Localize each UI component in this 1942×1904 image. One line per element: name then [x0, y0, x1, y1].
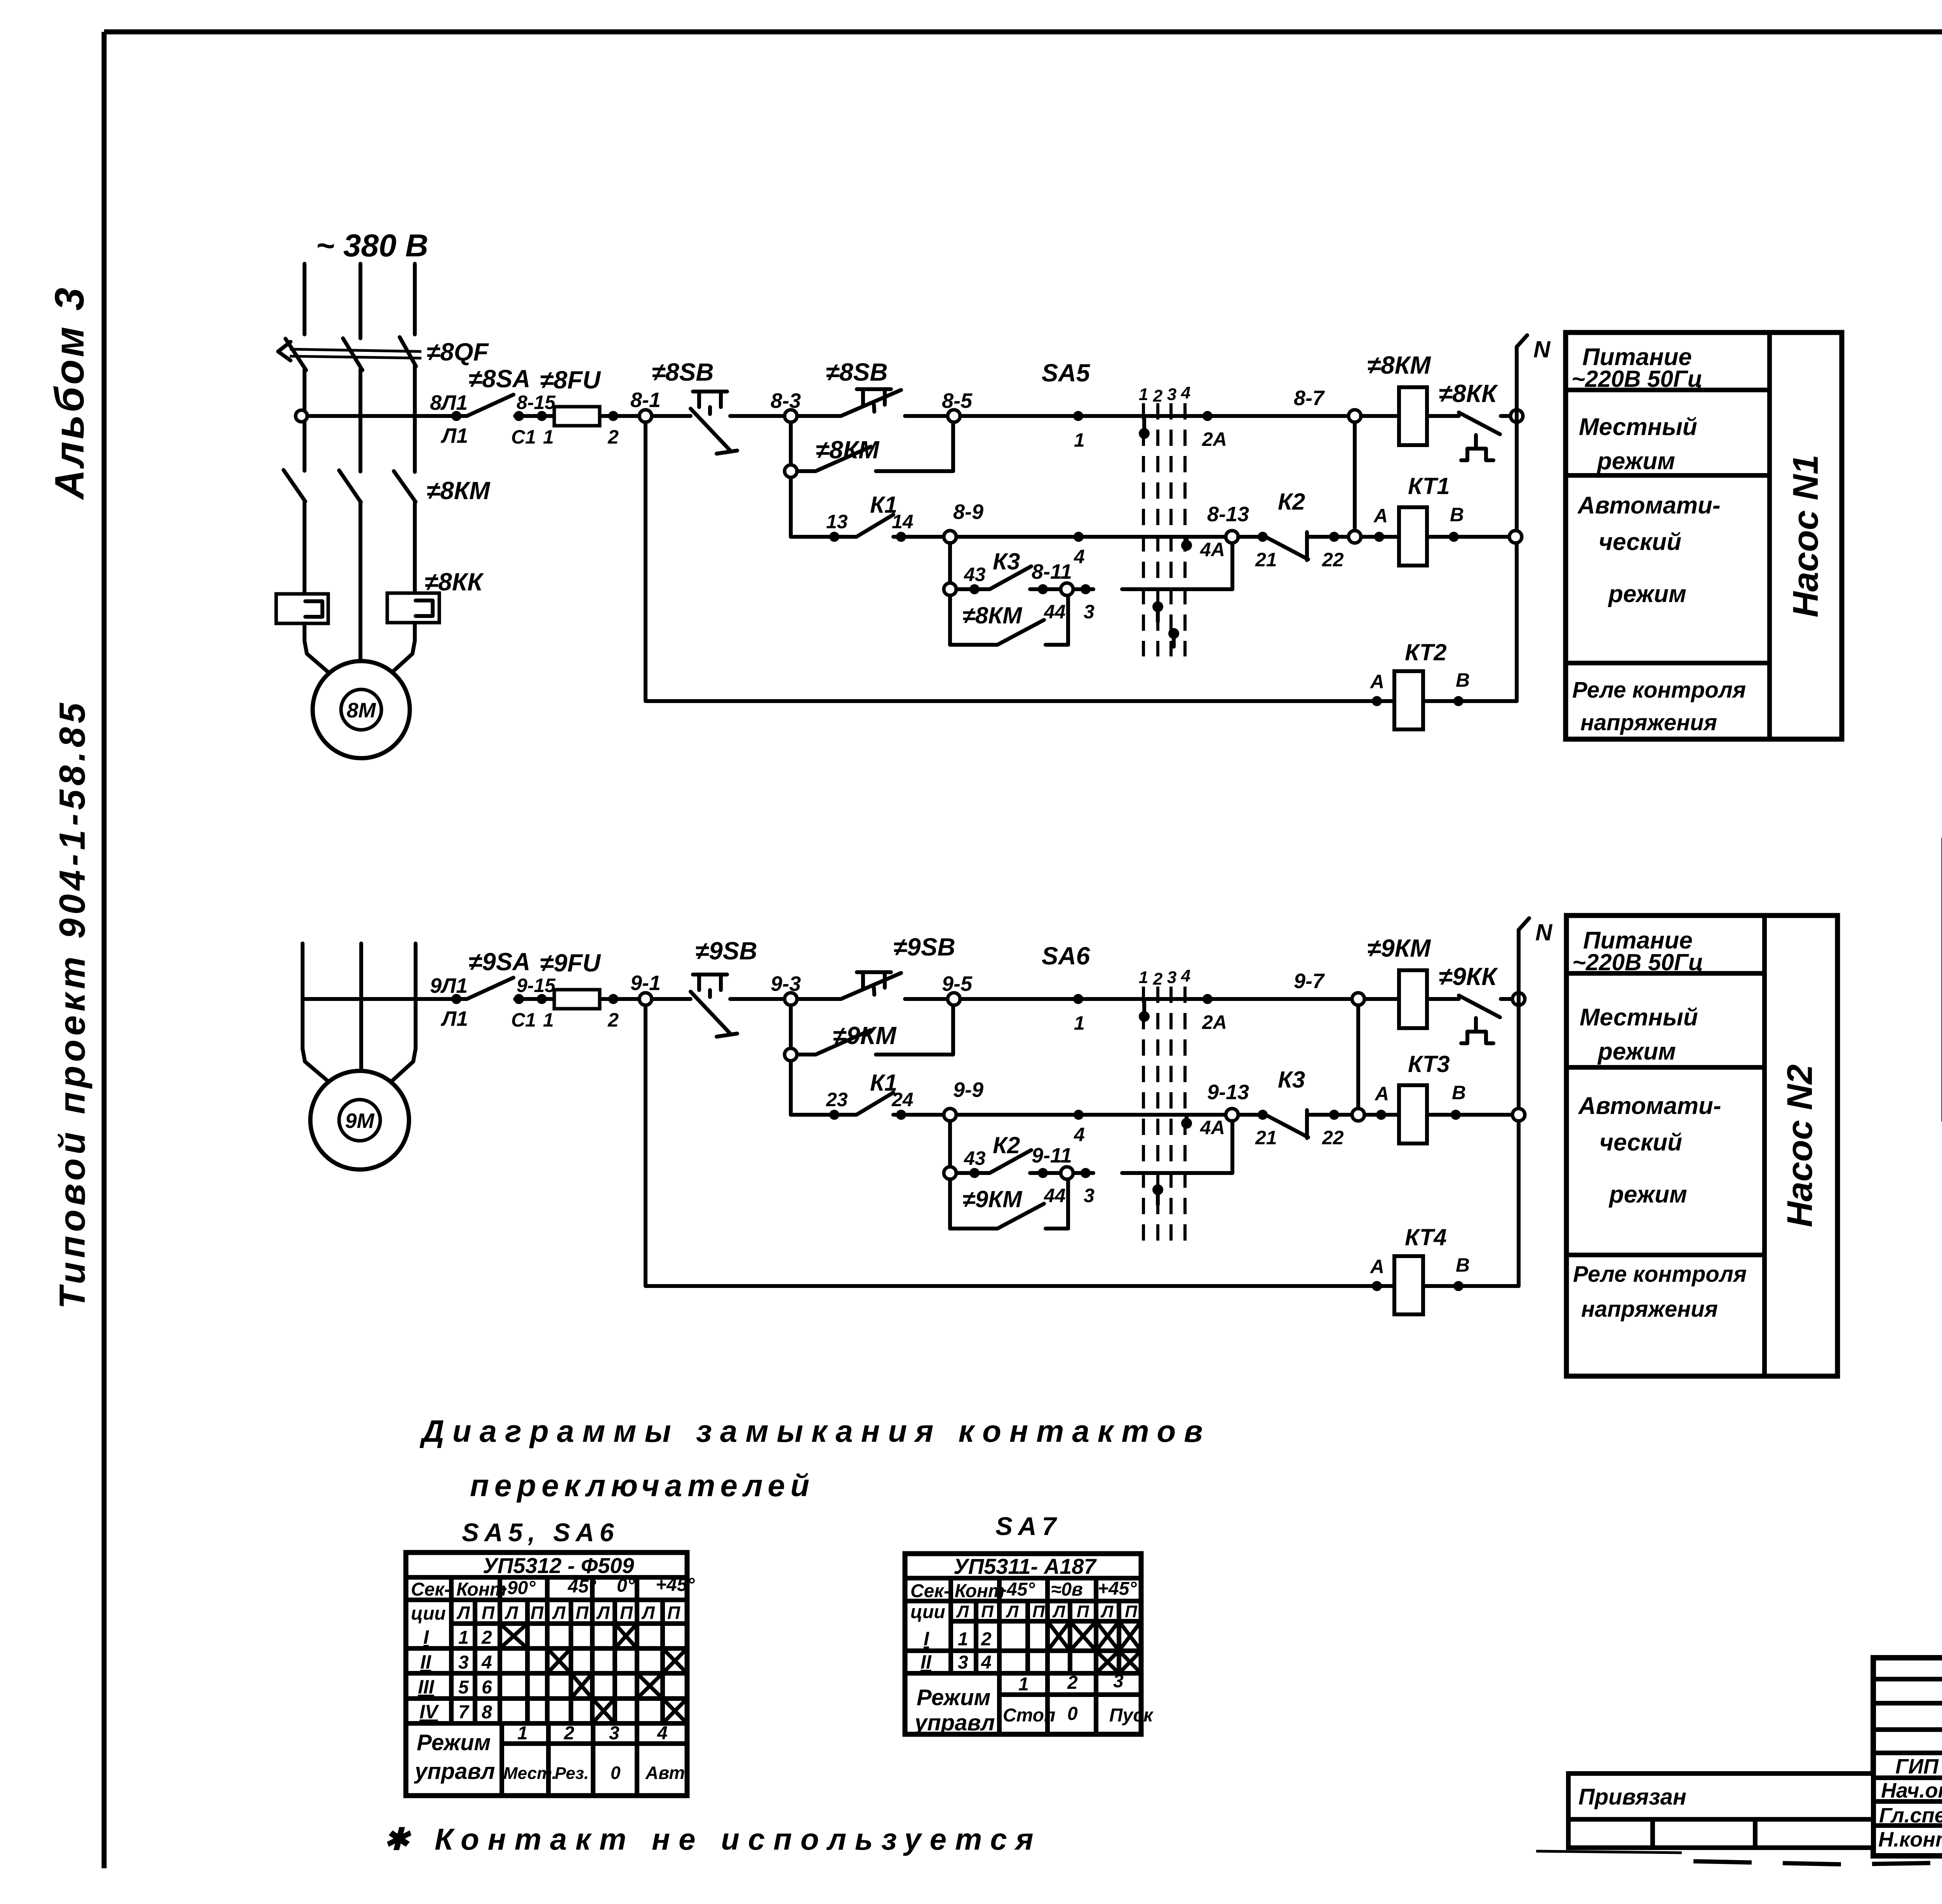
wire 9-9 to SA6 row — [956, 1113, 1226, 1117]
svg-text:II: II — [420, 1651, 432, 1673]
svg-text:Стоп: Стоп — [1003, 1705, 1055, 1726]
svg-text:1: 1 — [1139, 968, 1148, 987]
svg-text:9-3: 9-3 — [771, 972, 801, 996]
label 8QF — [426, 338, 489, 366]
svg-text:SA6: SA6 — [1042, 942, 1090, 970]
node 8-1 — [630, 388, 661, 422]
svg-text:≠8FU: ≠8FU — [540, 366, 601, 394]
svg-text:1: 1 — [958, 1629, 968, 1650]
svg-text:IV: IV — [419, 1701, 439, 1723]
wire 8-9 to SA5 row — [956, 535, 1226, 539]
wire vertical 9-3 down — [789, 1005, 793, 1115]
switch table SA5 SA6 — [406, 1552, 695, 1796]
label 8SA — [468, 365, 556, 413]
svg-text:44: 44 — [1044, 1185, 1066, 1206]
svg-text:ческий: ческий — [1599, 529, 1681, 555]
node 8-5 — [942, 389, 973, 422]
svg-text:~ 380 В: ~ 380 В — [316, 228, 428, 263]
svg-text:Л: Л — [1100, 1602, 1114, 1621]
node 9-13 — [1207, 1081, 1249, 1121]
svg-text:+45°: +45° — [656, 1575, 695, 1595]
contact K1 row pump2 — [791, 1070, 944, 1120]
svg-text:I: I — [423, 1626, 429, 1648]
svg-text:Реле контроля: Реле контроля — [1573, 1262, 1747, 1287]
svg-text:SA5: SA5 — [1042, 359, 1091, 387]
svg-text:управл: управл — [914, 1710, 995, 1735]
bottom smudge lines — [1536, 1851, 1942, 1875]
node 9-9 — [944, 1078, 983, 1121]
svg-text:П: П — [482, 1603, 495, 1623]
svg-text:7: 7 — [458, 1702, 470, 1723]
svg-text:≠9SB: ≠9SB — [695, 937, 757, 965]
node L1 dot pump2 — [430, 974, 468, 1030]
contact K2 NC — [1238, 489, 1349, 571]
svg-text:2: 2 — [1153, 386, 1163, 406]
svg-text:8-13: 8-13 — [1207, 503, 1249, 526]
svg-text:3: 3 — [1167, 968, 1176, 987]
node 2 pump2 — [607, 994, 619, 1031]
circuit breaker 8QF — [278, 337, 421, 370]
svg-text:≠9КМ: ≠9КМ — [962, 1186, 1023, 1212]
svg-text:II: II — [921, 1651, 932, 1673]
node 2A dot pump2 — [1202, 994, 1227, 1033]
node N at KT3 row — [1512, 1109, 1525, 1121]
svg-text:4А: 4А — [1200, 539, 1225, 560]
svg-text:Режим: Режим — [417, 1730, 491, 1755]
node tap on phase L1 — [296, 410, 307, 422]
wire N line pump1 — [1517, 335, 1551, 701]
timer relay coil KT1 — [1361, 473, 1509, 566]
wire vertical 8-3 down — [789, 422, 793, 537]
wire phase L2 pump1 — [358, 264, 362, 662]
wire feeder row pump1 — [307, 414, 467, 418]
wire 8-1 to stop button — [652, 414, 691, 418]
contact K1 row pump1 — [791, 492, 944, 542]
switch section dashed links SA5 — [1143, 403, 1185, 656]
wire phase L1 pump2 — [303, 943, 333, 1086]
svg-text:Конт: Конт — [456, 1579, 506, 1600]
node C1 and 1 pump2 — [511, 994, 554, 1031]
svg-text:П: П — [1125, 1602, 1138, 1621]
svg-text:≠8КМ: ≠8КМ — [962, 602, 1023, 628]
SA5 position dots lower — [1152, 601, 1179, 647]
svg-text:Л: Л — [552, 1603, 566, 1623]
switch 8SA — [467, 395, 513, 416]
title block frame — [1873, 1658, 1942, 1856]
svg-text:Н.контр: Н.контр — [1878, 1828, 1942, 1851]
contactor coil 8KM — [1367, 351, 1431, 445]
SA5 position dot 4A — [1181, 539, 1225, 560]
svg-text:8М: 8М — [346, 699, 376, 722]
svg-text:N: N — [1535, 919, 1553, 945]
svg-text:≠8КМ: ≠8КМ — [426, 477, 491, 505]
wire phase L3 pump2 — [387, 943, 416, 1086]
margin text Типовой проект 904-1-58.85 — [52, 699, 92, 1309]
svg-text:ции: ции — [910, 1602, 945, 1622]
svg-text:режим: режим — [1608, 1181, 1687, 1208]
svg-text:1: 1 — [543, 1009, 554, 1031]
svg-text:≈0в: ≈0в — [1051, 1579, 1083, 1600]
svg-text:УП5312 - Ф509: УП5312 - Ф509 — [483, 1553, 634, 1578]
auxiliary contact 9KM bypass — [950, 1179, 1068, 1229]
svg-text:2: 2 — [1153, 969, 1163, 989]
svg-text:9-9: 9-9 — [953, 1078, 983, 1102]
svg-text:6: 6 — [482, 1677, 492, 1698]
svg-text:режим: режим — [1597, 1038, 1676, 1065]
label 8Л1 — [430, 391, 468, 447]
thermal contact 8KK NC — [1427, 379, 1511, 460]
svg-text:Гл.спец: Гл.спец — [1879, 1804, 1942, 1827]
svg-text:8Л1: 8Л1 — [430, 391, 468, 414]
wire SA6 bypass loop to 9-13 — [1122, 1121, 1232, 1173]
svg-text:Л1: Л1 — [440, 424, 468, 447]
label 8KM main — [426, 477, 491, 505]
node 1 dot on feeder — [1073, 411, 1085, 451]
svg-text:Мест.: Мест. — [503, 1764, 557, 1783]
svg-text:К2: К2 — [1278, 489, 1305, 515]
svg-text:П: П — [620, 1603, 633, 1623]
svg-text:Пуск: Пуск — [1109, 1705, 1154, 1726]
svg-text:Местный: Местный — [1580, 1004, 1698, 1031]
svg-text:3: 3 — [1084, 1185, 1095, 1206]
thermal contact 9KK NC — [1427, 962, 1512, 1043]
title block signatures — [1878, 1755, 1942, 1852]
node L1 dot — [451, 411, 461, 421]
svg-text:✱ Контакт не используется: ✱ Контакт не используется — [384, 1822, 1042, 1856]
wire 9-9 down to K2 row — [948, 1121, 952, 1173]
svg-text:24: 24 — [891, 1089, 914, 1110]
wire to fuse — [515, 414, 639, 418]
svg-text:Сек-: Сек- — [910, 1581, 950, 1601]
svg-text:≠9КМ: ≠9КМ — [833, 1022, 897, 1049]
svg-text:Л: Л — [505, 1603, 519, 1623]
svg-text:УП5311- А187: УП5311- А187 — [954, 1554, 1097, 1579]
node 8-3 — [771, 389, 801, 422]
svg-text:Альбом 3: Альбом 3 — [47, 285, 92, 501]
svg-text:3: 3 — [609, 1723, 619, 1744]
svg-text:КТ4: КТ4 — [1405, 1224, 1447, 1250]
wire 8-7 to coil — [1361, 414, 1399, 418]
svg-text:режим: режим — [1608, 581, 1686, 607]
node 9-7 — [1294, 969, 1364, 1005]
pushbutton 9SB start — [797, 933, 955, 999]
svg-text:21: 21 — [1255, 1127, 1277, 1149]
svg-text:Л: Л — [596, 1603, 610, 1623]
svg-text:0: 0 — [611, 1763, 621, 1783]
svg-text:К2: К2 — [993, 1132, 1020, 1158]
timer relay coil KT3 — [1364, 1051, 1512, 1143]
svg-text:Реле контроля: Реле контроля — [1572, 677, 1746, 703]
svg-text:В: В — [1450, 504, 1464, 526]
svg-text:2: 2 — [607, 426, 619, 448]
svg-text:3: 3 — [1084, 601, 1095, 623]
svg-text:8-11: 8-11 — [1032, 560, 1072, 583]
svg-text:4: 4 — [1074, 1124, 1085, 1145]
svg-text:Л: Л — [456, 1603, 470, 1623]
svg-text:3: 3 — [958, 1652, 968, 1673]
switch table SA7 — [905, 1554, 1154, 1735]
svg-text:4: 4 — [657, 1723, 668, 1744]
motor 9M — [310, 1071, 409, 1170]
timer relay coil KT4 — [1369, 1224, 1519, 1314]
svg-text:В: В — [1456, 1254, 1470, 1276]
fuse 9FU — [540, 949, 601, 1009]
svg-text:Л1: Л1 — [440, 1007, 468, 1030]
SA6 position dot 4A — [1181, 1117, 1225, 1138]
svg-text:SA5, SA6: SA5, SA6 — [462, 1518, 619, 1547]
wire SA5 bypass loop to 8-13 — [1122, 543, 1232, 589]
svg-text:Привязан: Привязан — [1578, 1784, 1686, 1810]
svg-text:Нач.отд: Нач.отд — [1881, 1779, 1942, 1802]
svg-text:Л: Л — [641, 1603, 655, 1623]
svg-text:14: 14 — [892, 511, 914, 533]
svg-text:≠8КМ: ≠8КМ — [816, 436, 880, 464]
svg-text:Насос N1: Насос N1 — [1786, 454, 1825, 617]
timer relay coil KT2 — [1369, 639, 1517, 729]
svg-text:А: А — [1369, 671, 1384, 693]
svg-text:Л: Л — [956, 1602, 969, 1621]
svg-text:2: 2 — [1067, 1673, 1078, 1693]
pushbutton 8SB stop — [652, 358, 785, 454]
wire feeder row pump2 — [303, 997, 467, 1001]
thermal relay heaters 8KK — [276, 593, 439, 623]
svg-text:8-9: 8-9 — [953, 500, 983, 524]
svg-text:КТ3: КТ3 — [1408, 1051, 1450, 1077]
label SA6 — [1042, 942, 1190, 989]
svg-text:1: 1 — [1074, 1012, 1085, 1034]
svg-text:Л: Л — [1006, 1602, 1019, 1621]
node 4 dot pump2 — [1074, 1110, 1085, 1145]
svg-text:4А: 4А — [1200, 1117, 1225, 1138]
contact K3 NC pump2 — [1238, 1067, 1352, 1149]
margin text Альбом 3 — [47, 285, 92, 501]
wire vertical 9-1 down — [644, 1005, 647, 1286]
svg-text:4: 4 — [1181, 966, 1190, 985]
node C1 and 1 — [511, 411, 554, 448]
node N top pump2 — [1512, 993, 1525, 1005]
node 1 dot on feeder pump2 — [1073, 994, 1085, 1034]
wire KT2 row pump1 — [646, 699, 1394, 703]
svg-text:С1: С1 — [511, 1009, 536, 1031]
svg-text:9Л1: 9Л1 — [430, 974, 468, 997]
svg-text:22: 22 — [1322, 1127, 1344, 1149]
svg-text:2: 2 — [564, 1723, 574, 1744]
svg-text:21: 21 — [1255, 549, 1277, 571]
wire 9-1 to stop button — [652, 997, 691, 1001]
svg-text:≠8КК: ≠8КК — [425, 568, 484, 596]
node N at KT1 row — [1509, 531, 1522, 543]
auxiliary contact 8KM self-hold — [785, 422, 953, 477]
svg-text:П: П — [531, 1603, 544, 1623]
note contact not used — [384, 1822, 1042, 1856]
svg-text:≠8SA: ≠8SA — [468, 365, 531, 393]
svg-text:43: 43 — [964, 564, 986, 585]
svg-text:9-13: 9-13 — [1207, 1081, 1249, 1104]
svg-text:43: 43 — [964, 1147, 986, 1169]
wire phase L1 pump1 — [305, 264, 335, 678]
wire to fuse pump2 — [515, 997, 639, 1001]
svg-text:0: 0 — [1067, 1704, 1078, 1724]
svg-text:В: В — [1456, 669, 1470, 691]
pushbutton 9SB stop — [691, 937, 785, 1037]
contact K3 row pump1 — [944, 548, 1093, 595]
label 8KK — [425, 568, 484, 596]
svg-text:I: I — [924, 1628, 929, 1650]
svg-text:П: П — [1077, 1602, 1089, 1621]
function table pump2 — [1566, 915, 1838, 1376]
svg-text:≠9КМ: ≠9КМ — [1367, 934, 1431, 962]
svg-text:К3: К3 — [1278, 1067, 1305, 1093]
svg-text:9М: 9М — [345, 1109, 374, 1133]
svg-text:45°: 45° — [567, 1576, 596, 1597]
svg-text:≠8КК: ≠8КК — [1439, 379, 1498, 407]
fuse 8FU — [540, 366, 601, 426]
svg-text:9-1: 9-1 — [630, 971, 661, 995]
svg-text:П: П — [576, 1603, 589, 1623]
svg-text:1: 1 — [458, 1627, 469, 1648]
svg-text:Авт.: Авт. — [645, 1763, 689, 1783]
node 2 — [607, 411, 619, 448]
node junction KT3 row — [1352, 1109, 1364, 1121]
svg-text:1: 1 — [517, 1723, 528, 1744]
svg-text:Местный: Местный — [1579, 414, 1697, 440]
svg-text:≠9SB: ≠9SB — [893, 933, 955, 961]
svg-text:П: П — [981, 1602, 994, 1621]
svg-text:9-15: 9-15 — [517, 975, 556, 996]
wire N line pump2 — [1519, 918, 1553, 1286]
node N top pump1 — [1510, 410, 1523, 422]
wire 8-7 down to KT1 row — [1353, 422, 1357, 531]
svg-text:Рез.: Рез. — [555, 1764, 589, 1783]
svg-text:13: 13 — [826, 511, 848, 533]
node 8-13 — [1207, 503, 1249, 543]
node 4 dot — [1074, 532, 1085, 567]
svg-text:4: 4 — [981, 1652, 992, 1673]
svg-text:8: 8 — [482, 1702, 492, 1723]
svg-text:напряжения: напряжения — [1581, 1297, 1718, 1322]
heading switch contact diagrams — [419, 1414, 1211, 1547]
svg-text:Конт: Конт — [955, 1581, 1005, 1601]
svg-text:1: 1 — [543, 426, 554, 448]
SA6 position dot lower — [1152, 1184, 1163, 1204]
svg-text:Автомати-: Автомати- — [1578, 1093, 1721, 1119]
svg-text:управл: управл — [414, 1759, 495, 1784]
attachment box Привязан — [1568, 1773, 1873, 1848]
svg-text:≠8SB: ≠8SB — [652, 358, 714, 386]
svg-text:8-5: 8-5 — [942, 389, 973, 412]
wire 8-5 to 8-7 through SA5 — [960, 414, 1348, 418]
svg-text:4: 4 — [481, 1652, 492, 1673]
svg-text:≠8КМ: ≠8КМ — [1367, 351, 1431, 379]
function table pump1 — [1566, 332, 1842, 739]
svg-text:П: П — [1032, 1602, 1045, 1621]
svg-text:3: 3 — [458, 1652, 469, 1673]
svg-text:~220В 50Гц: ~220В 50Гц — [1572, 949, 1703, 975]
svg-text:III: III — [418, 1676, 435, 1698]
svg-text:2А: 2А — [1202, 1011, 1227, 1033]
wire 9-5 to 9-7 through SA6 — [960, 997, 1352, 1001]
svg-text:ции: ции — [411, 1603, 446, 1624]
SA6 position dot on dash1 — [1139, 1002, 1150, 1022]
svg-text:2А: 2А — [1202, 428, 1227, 450]
svg-text:0°: 0° — [617, 1575, 635, 1596]
svg-text:режим: режим — [1596, 448, 1675, 475]
svg-text:SA7: SA7 — [995, 1512, 1061, 1540]
svg-text:Сек-: Сек- — [411, 1579, 451, 1600]
node 9-3 — [771, 972, 801, 1005]
node 9-1 — [630, 971, 661, 1005]
node 8-7 — [1294, 386, 1361, 422]
svg-text:Насос N2: Насос N2 — [1780, 1064, 1820, 1227]
node 8-11 — [1032, 560, 1095, 623]
svg-text:2: 2 — [607, 1009, 619, 1031]
svg-text:3: 3 — [1113, 1671, 1124, 1692]
svg-text:≠9КК: ≠9КК — [1439, 962, 1498, 990]
svg-text:3: 3 — [1167, 385, 1176, 404]
svg-text:ГИП: ГИП — [1895, 1755, 1939, 1778]
svg-text:А: А — [1369, 1256, 1384, 1277]
svg-text:≠9SA: ≠9SA — [468, 948, 531, 976]
motor 8M — [313, 661, 410, 758]
svg-text:-45°: -45° — [1001, 1579, 1035, 1600]
svg-text:А: А — [1373, 505, 1388, 527]
svg-text:≠8SB: ≠8SB — [826, 358, 888, 386]
svg-text:-90°: -90° — [501, 1578, 536, 1598]
svg-text:С1: С1 — [511, 426, 536, 448]
svg-text:8-7: 8-7 — [1294, 386, 1325, 410]
contactor coil 9KM — [1367, 934, 1431, 1028]
svg-text:1: 1 — [1139, 385, 1148, 404]
wire KT4 row pump2 — [646, 1284, 1394, 1288]
svg-text:К3: К3 — [993, 548, 1020, 574]
svg-text:8-3: 8-3 — [771, 389, 801, 412]
auxiliary contact 9KM self-hold — [785, 1005, 953, 1061]
pushbutton 8SB start — [797, 358, 947, 416]
wire 9-7 to coil — [1364, 997, 1399, 1001]
svg-text:Режим: Режим — [917, 1685, 990, 1710]
contact K2 row pump2 — [944, 1132, 1093, 1179]
wire vertical 8-1 down — [644, 422, 647, 701]
svg-text:8-15: 8-15 — [517, 392, 556, 413]
svg-text:П: П — [667, 1603, 680, 1623]
contactor main contacts 8KM — [284, 470, 416, 502]
svg-text:КТ1: КТ1 — [1408, 473, 1450, 499]
svg-text:4: 4 — [1181, 383, 1190, 402]
wire phase L3 pump1 — [386, 264, 415, 678]
svg-text:Типовой проект 904-1-58.85: Типовой проект 904-1-58.85 — [52, 699, 92, 1309]
svg-text:переключателей: переключателей — [470, 1468, 815, 1503]
auxiliary contact 8KM bypass — [950, 595, 1068, 645]
svg-text:Л: Л — [1052, 1602, 1065, 1621]
node 9-5 — [942, 972, 973, 1005]
switch section dashed links SA6 — [1143, 987, 1185, 1246]
svg-text:Автомати-: Автомати- — [1577, 492, 1721, 519]
label ~380V supply — [316, 228, 428, 263]
svg-text:4: 4 — [1074, 546, 1085, 567]
svg-text:5: 5 — [458, 1677, 469, 1698]
svg-text:N: N — [1533, 336, 1551, 362]
svg-text:+45°: +45° — [1098, 1579, 1137, 1599]
svg-text:1: 1 — [1074, 429, 1085, 451]
label SA5 — [1042, 359, 1190, 406]
svg-text:9-11: 9-11 — [1032, 1144, 1072, 1167]
svg-text:КТ2: КТ2 — [1405, 639, 1447, 665]
svg-text:2: 2 — [481, 1627, 492, 1648]
svg-text:1: 1 — [1018, 1674, 1029, 1695]
wire 8-9 down to K3 row — [948, 543, 952, 589]
svg-text:23: 23 — [826, 1089, 848, 1110]
svg-text:напряжения: напряжения — [1580, 710, 1717, 735]
